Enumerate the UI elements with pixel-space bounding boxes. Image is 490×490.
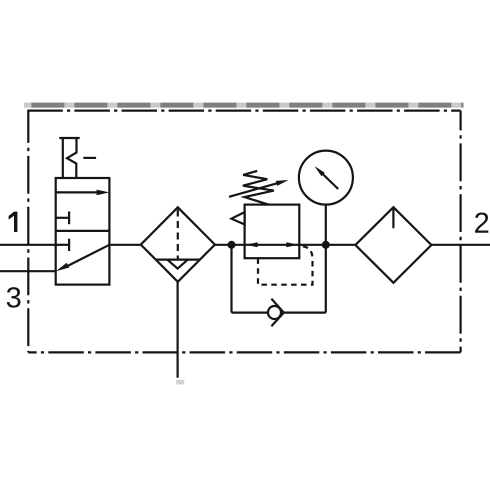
label 1 (9, 212, 18, 232)
regulator R1 body (245, 205, 300, 259)
wire regulator to lubricator (299, 244, 355, 246)
wire gauge stem (325, 205, 327, 245)
filter drain line (177, 282, 179, 378)
regulator R1 relief vent triangle (231, 212, 244, 224)
valve V1 body (3/2 shut-off valve) (56, 178, 110, 285)
wire port 3 (0, 270, 56, 272)
drain end cap (176, 380, 184, 385)
bypass wire (232, 245, 326, 313)
wire port 2 (431, 244, 490, 246)
valve V1 flow arrow (open position) (56, 190, 110, 196)
regulator R1 spring (243, 171, 274, 205)
label 3 (7, 287, 21, 308)
pressure gauge G1 (299, 151, 353, 205)
valve V1 actuator (detent) (59, 138, 96, 178)
valve V1 blocked port T (upper) (56, 212, 69, 225)
lubricator L1 (second diamond) (355, 207, 431, 283)
node A (junction dot) (228, 241, 236, 249)
regulator R1 adjustment arrow (229, 180, 289, 197)
node B (junction dot) (322, 241, 330, 249)
enclosure gray highlight bar (24, 103, 464, 108)
valve V1 exhaust path arrow (2 to 3) (56, 245, 110, 271)
wire port 1 (0, 244, 56, 246)
valve V1 blocked port T (lower) (56, 239, 69, 251)
wire filter to regulator (215, 244, 245, 246)
filter F1 with water separator (141, 207, 215, 281)
label 2 (475, 212, 488, 232)
check valve CV1 (268, 299, 284, 327)
enclosure boundary (dash-dot frame) (27, 111, 460, 353)
pilot line (dashed) (258, 246, 313, 285)
wire valve to filter (109, 244, 140, 246)
